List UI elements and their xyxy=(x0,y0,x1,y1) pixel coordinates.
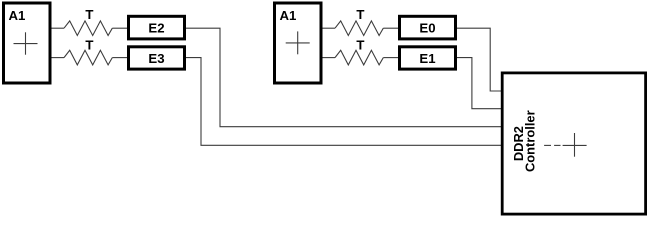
wire R3 to E0 xyxy=(383,27,398,29)
resistor R3 xyxy=(335,21,383,36)
wire A1 pin2 to R2 xyxy=(52,57,65,59)
wire E0 to DDR2 controller xyxy=(457,28,502,91)
wire E2 to DDR2 controller xyxy=(186,28,502,127)
block DDR2 Controller xyxy=(502,73,645,214)
origin crosshair of DDR2 Controller xyxy=(563,133,587,157)
svg-text:T: T xyxy=(356,7,364,22)
svg-text:Controller: Controller xyxy=(523,110,538,172)
wire E1 to DDR2 controller xyxy=(457,58,502,109)
block A1 (right) xyxy=(275,3,322,83)
wire A1 pin2 to R4 xyxy=(323,57,336,59)
svg-text:E1: E1 xyxy=(419,51,435,66)
wire R2 to E3 xyxy=(112,57,127,59)
wire A1 pin1 to R3 xyxy=(323,27,336,29)
resistor R4 xyxy=(335,50,383,65)
buffer E3 xyxy=(129,47,185,69)
svg-text:A1: A1 xyxy=(280,8,297,23)
origin crosshair of A1 (right) xyxy=(286,31,310,54)
buffer E1 xyxy=(400,47,456,69)
svg-text:A1: A1 xyxy=(9,8,26,23)
svg-text:E3: E3 xyxy=(148,51,164,66)
wire R1 to E2 xyxy=(112,27,127,29)
svg-text:T: T xyxy=(85,37,93,52)
resistor R2 xyxy=(64,50,112,65)
svg-text:T: T xyxy=(356,37,364,52)
wire R4 to E1 xyxy=(383,57,398,59)
wire E3 to DDR2 controller xyxy=(186,58,502,146)
wire A1 pin1 to R1 xyxy=(52,27,65,29)
resistor R1 xyxy=(64,21,112,36)
origin crosshair of A1 (left) xyxy=(14,32,38,54)
svg-text:E0: E0 xyxy=(419,21,435,36)
svg-text:E2: E2 xyxy=(148,21,164,36)
svg-text:T: T xyxy=(85,7,93,22)
buffer E2 xyxy=(129,16,185,39)
dashed leader to origin xyxy=(544,144,560,146)
buffer E0 xyxy=(400,16,456,39)
block A1 (left) xyxy=(4,3,51,83)
